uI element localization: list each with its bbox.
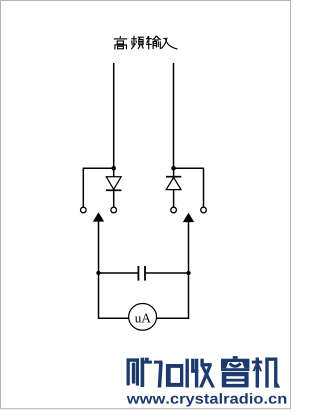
diode D2 (cathode up) bbox=[166, 177, 181, 190]
logo glyph 矿 bbox=[127, 358, 152, 387]
wire: left branch to socket bbox=[83, 168, 113, 208]
glyph 入 bbox=[161, 38, 178, 49]
node: right capacitor-rail junction dot bbox=[186, 271, 190, 275]
right selector arrow bbox=[183, 213, 194, 222]
glyph 频 bbox=[131, 36, 144, 49]
terminal socket right-inner bbox=[171, 207, 177, 213]
left selector arrow bbox=[93, 212, 104, 221]
watermark url www.crystalradio.cn bbox=[127, 393, 287, 407]
wire: right wiper stem down to bottom rail bbox=[157, 221, 189, 318]
glyph 输 bbox=[146, 36, 161, 50]
logo glyph 石 bbox=[154, 361, 183, 388]
wire: right input vertical bbox=[173, 63, 175, 168]
node: right junction dot bbox=[171, 166, 176, 171]
wire: capacitor rail left bbox=[99, 272, 139, 274]
logo glyph 收 bbox=[186, 359, 216, 388]
wire: left wiper stem down to bottom rail bbox=[99, 221, 130, 319]
terminal socket left-inner bbox=[111, 207, 117, 213]
wire: right diode bottom lead bbox=[173, 190, 175, 208]
logo glyph 音 bbox=[221, 356, 249, 387]
wire: right diode top lead bbox=[173, 168, 175, 177]
terminal socket left-outer bbox=[81, 207, 87, 213]
node: left capacitor-rail junction dot bbox=[96, 271, 100, 275]
terminal socket right-outer bbox=[201, 207, 207, 213]
glyph 高 bbox=[114, 36, 127, 50]
label 高频输入 (drawn glyphs) bbox=[114, 36, 178, 50]
wire: capacitor rail right bbox=[145, 272, 188, 274]
meter M1 circle bbox=[129, 304, 157, 331]
logo glyph 机 bbox=[252, 358, 280, 388]
node: left junction dot bbox=[111, 166, 116, 171]
wire: right branch to socket bbox=[174, 168, 204, 208]
diode D1 (cathode down) bbox=[106, 177, 122, 191]
wire: left diode bottom lead bbox=[113, 190, 115, 207]
capacitor C1 plates bbox=[138, 266, 145, 281]
wire: left diode top lead bbox=[113, 168, 115, 177]
wire: left input vertical bbox=[113, 63, 115, 168]
watermark logo 矿石收音机 bbox=[127, 356, 281, 388]
meter M1 label uA bbox=[135, 314, 151, 323]
